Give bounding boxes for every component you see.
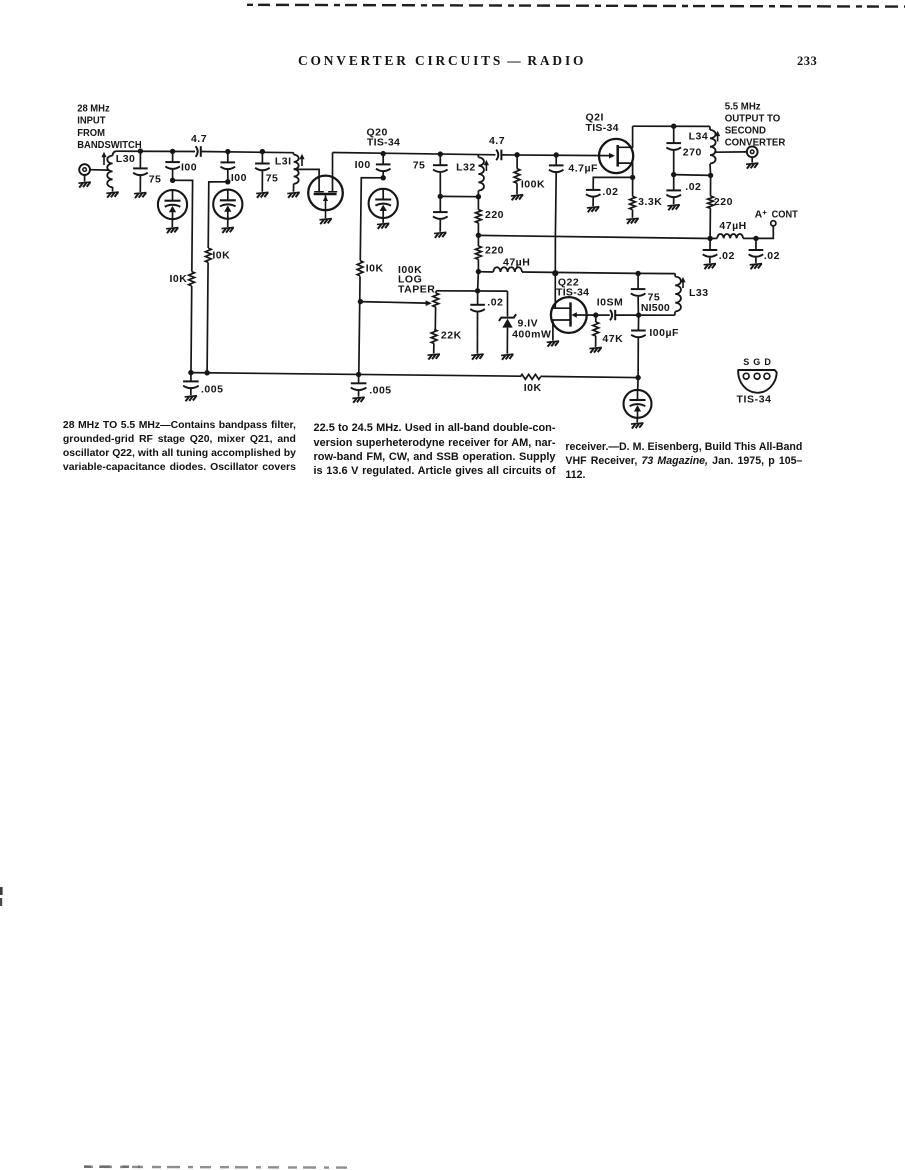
node L32 bottom xyxy=(476,194,481,199)
inductor L32 xyxy=(477,155,479,158)
svg-text:OUTPUT TO: OUTPUT TO xyxy=(725,113,781,124)
transistor Q21 TIS-34 (mixer) xyxy=(599,139,633,173)
wire 270 node to L34 bottom xyxy=(674,174,711,177)
node at 270 cap xyxy=(671,124,676,129)
capacitor 75 N1500 xyxy=(637,274,639,290)
ground below zener xyxy=(501,354,513,360)
node at 47uH junction xyxy=(476,269,481,274)
varactor diode D1 xyxy=(158,190,187,219)
ground below unlabeled cap xyxy=(434,232,446,238)
ground below 100K xyxy=(511,195,523,201)
svg-text:.005: .005 xyxy=(369,385,391,397)
svg-text:CONT: CONT xyxy=(772,209,798,221)
node at 100K resistor xyxy=(514,152,519,157)
svg-text:I0K: I0K xyxy=(366,262,384,274)
node below 270 cap xyxy=(671,172,676,177)
wire oscillator tank top xyxy=(437,290,508,292)
svg-text:.02: .02 xyxy=(719,250,735,262)
svg-text:I00: I00 xyxy=(355,159,371,171)
tuning arrow at L33 xyxy=(682,280,684,288)
wire from node to 10K bias line 2 xyxy=(207,182,228,373)
capacitor .02 (Q21 source bypass) xyxy=(586,189,601,191)
capacitor 75 (input filter) xyxy=(139,151,141,168)
node at 100 cap third (x383) xyxy=(381,151,386,156)
output connector J2 xyxy=(747,146,758,157)
inductor L31 xyxy=(292,153,295,155)
svg-text:.005: .005 xyxy=(201,383,223,395)
wire mixer feed (long horizontal) xyxy=(478,235,710,238)
A+ CONT terminal xyxy=(771,221,776,226)
inductor 47uH (second) xyxy=(717,234,743,238)
node at L33 bottom junction xyxy=(636,312,641,317)
capacitor 4.7uF xyxy=(555,155,557,165)
wire from node to oscillator bias line xyxy=(359,178,383,375)
capacitor 270 xyxy=(673,126,675,143)
ground below .005 left xyxy=(185,396,197,402)
capacitor .02 (below 270) xyxy=(666,189,681,191)
resistor 3.3K (R7) xyxy=(630,196,636,209)
wire to potentiometer wiper xyxy=(360,302,426,304)
ground below 22K xyxy=(428,354,440,360)
ground below input connector xyxy=(78,182,90,188)
node at 100pF cap (x172) xyxy=(170,149,175,154)
bottom ground bus xyxy=(191,373,520,377)
svg-text:TIS-34: TIS-34 xyxy=(367,136,400,148)
svg-text:TIS-34: TIS-34 xyxy=(556,286,589,298)
node at 75 cap second (x262) xyxy=(260,149,265,154)
wire top bus second segment xyxy=(201,152,293,153)
capacitor 75 (third) xyxy=(439,154,441,165)
node at 75 cap third (x440) xyxy=(438,151,443,156)
ground below .02 (270) xyxy=(667,205,679,211)
capacitor .02 (oscillator) xyxy=(477,291,479,305)
capacitor .02 (supply bypass 1) xyxy=(709,239,711,251)
node L34 bottom xyxy=(708,173,713,178)
inductor L33 xyxy=(674,274,677,277)
capacitor .02 (supply bypass 2) xyxy=(755,238,757,250)
node at 47uH-2 left xyxy=(707,236,712,241)
resistor 10K (R11) in bottom bus xyxy=(520,374,540,379)
wire top bus fourth segment (to Q21 gate) xyxy=(502,154,610,157)
wire Q21 source to .02 cap xyxy=(593,177,632,190)
svg-text:TIS-34: TIS-34 xyxy=(586,122,619,134)
ground below Q22 source xyxy=(547,341,559,347)
input connector J1 xyxy=(79,164,90,175)
inductor L34 xyxy=(708,126,711,129)
tuning arrow at L32 xyxy=(485,163,487,171)
ground below Q21 source bypass xyxy=(587,207,599,213)
transistor Q20 TIS-34 (grounded-gate RF stage) xyxy=(308,176,343,211)
svg-text:22K: 22K xyxy=(441,330,462,342)
varactor diode D2 xyxy=(213,190,242,219)
svg-text:TAPER: TAPER xyxy=(398,283,435,295)
page bottom cut-off text dashes xyxy=(84,1166,352,1169)
svg-text:L32: L32 xyxy=(456,161,476,173)
svg-text:I00: I00 xyxy=(231,172,247,184)
tuning arrow at L30 xyxy=(103,155,105,165)
svg-text:4.7µF: 4.7µF xyxy=(568,163,598,175)
svg-text:220: 220 xyxy=(485,244,504,256)
node at second 100 cap (x228) xyxy=(225,149,230,154)
ground below 75 cap xyxy=(134,193,146,199)
ground below L31 xyxy=(287,192,299,198)
node on bias line to pot wiper xyxy=(358,299,363,304)
series capacitor 4.7 (second) xyxy=(496,150,498,161)
svg-text:.02: .02 xyxy=(764,250,780,262)
ground below output connector xyxy=(746,163,758,169)
node at 4.7uF cap xyxy=(554,152,559,157)
svg-text:47K: 47K xyxy=(602,333,623,345)
svg-text:270: 270 xyxy=(683,147,702,159)
ground below 3.3K xyxy=(626,218,638,224)
wire 4.7uF down to oscillator (crosses mixer feed) xyxy=(554,173,557,273)
svg-text:+: + xyxy=(762,208,767,217)
svg-text:.02: .02 xyxy=(487,297,503,309)
svg-text:.02: .02 xyxy=(602,186,618,198)
node below third 100 cap xyxy=(381,175,386,180)
ground below varactor D2 xyxy=(222,227,234,233)
resistor 22K (R9) xyxy=(431,330,437,344)
ground below varactor D3 xyxy=(377,223,389,229)
node at 75 N1500 cap xyxy=(635,271,640,276)
ground below Q20 gate xyxy=(319,219,331,225)
svg-text:47µH: 47µH xyxy=(503,257,530,269)
resistor 10K (R2) on bias line 2 xyxy=(205,248,211,263)
node bottom bus (bias line 2) xyxy=(204,370,209,375)
capacitor .005 (left) xyxy=(190,373,192,382)
wire down to oscillator tank xyxy=(477,272,480,291)
svg-text:4.7: 4.7 xyxy=(489,135,505,147)
capacitor 75 (second) xyxy=(261,152,263,164)
svg-text:TIS-34: TIS-34 xyxy=(737,393,772,405)
svg-text:I0K: I0K xyxy=(169,273,187,285)
series capacitor 10SM xyxy=(610,310,612,320)
svg-text:9.IV: 9.IV xyxy=(518,317,539,329)
node Q21 source xyxy=(630,175,635,180)
svg-text:I00K: I00K xyxy=(521,179,545,191)
svg-text:75: 75 xyxy=(266,172,279,184)
svg-text:75: 75 xyxy=(413,160,426,172)
varactor diode D4 (oscillator) xyxy=(624,390,652,418)
zener diode 9.1V 400mW xyxy=(507,291,509,316)
wire top bus left segment xyxy=(117,150,195,152)
ground below .005 second xyxy=(352,397,364,403)
capacitor 100uF xyxy=(637,315,639,330)
capacitor 100 (third, at Q20 drain) xyxy=(382,154,384,165)
svg-text:L3I: L3I xyxy=(275,155,292,167)
series capacitor 4.7 (C bandpass) xyxy=(196,146,198,157)
svg-text:47µH: 47µH xyxy=(719,220,746,232)
resistor 220 (R4) xyxy=(476,210,482,223)
svg-text:L30: L30 xyxy=(116,153,136,165)
inductor 47uH (L osc feed) xyxy=(493,267,522,272)
capacitor (unlabeled) below 75 third xyxy=(439,196,441,212)
capacitor 100 (second varactor coupling) xyxy=(227,152,229,163)
varactor diode D3 xyxy=(369,189,398,218)
resistor 220 (R5) xyxy=(476,246,482,259)
svg-text:.02: .02 xyxy=(685,181,701,193)
ground below 47K xyxy=(589,347,601,353)
ground below .02 oscillator xyxy=(471,354,483,360)
left page edge marks xyxy=(0,887,3,895)
node below third 75 cap xyxy=(438,194,443,199)
resistor 10K (R3) on oscillator bias line xyxy=(357,260,364,276)
inductor L30 xyxy=(113,151,117,155)
ground below bypass 2 xyxy=(750,264,762,270)
ground below varactor D1 xyxy=(166,228,178,234)
capacitor 100 (first varactor coupling) xyxy=(172,151,174,162)
resistor 47K (R10) xyxy=(593,322,599,336)
wire top bus third segment (Q20 drain to 4.7 cap) xyxy=(333,153,496,155)
node at .02 osc cap xyxy=(475,288,480,293)
node bottom bus left (.005) xyxy=(188,370,193,375)
wire node to L32 bottom xyxy=(440,195,478,197)
svg-text:4.7: 4.7 xyxy=(191,133,207,145)
node at 75pF cap (x140) xyxy=(138,148,143,153)
node bottom bus right (100uF) xyxy=(635,375,640,380)
svg-text:FROM: FROM xyxy=(77,127,105,139)
wire L31 tap to Q20 source xyxy=(297,169,319,192)
svg-text:BANDSWITCH: BANDSWITCH xyxy=(77,140,141,152)
node bottom bus (osc bias line) xyxy=(356,372,361,377)
svg-text:NI500: NI500 xyxy=(641,302,670,314)
svg-text:SECOND: SECOND xyxy=(725,125,766,136)
svg-text:L34: L34 xyxy=(689,130,709,142)
wire Q21 drain bus xyxy=(633,125,710,127)
wire to L33 bottom xyxy=(639,314,675,316)
wire from node to 10K bias line xyxy=(173,180,193,372)
tuning arrow at L31 xyxy=(301,157,303,166)
ground below bypass 1 xyxy=(704,264,716,270)
top page edge dashed line xyxy=(247,5,905,7)
svg-text:I0K: I0K xyxy=(212,249,230,261)
ground below second 75 cap xyxy=(256,192,268,198)
transistor Q22 TIS-34 (oscillator) xyxy=(551,297,587,333)
wire to A+ CONT terminal xyxy=(756,226,773,239)
capacitor .005 (second) xyxy=(358,375,360,384)
svg-text:28 MHz: 28 MHz xyxy=(77,103,110,115)
node at A+ branch xyxy=(753,236,758,241)
tuning arrow at L34 xyxy=(717,134,719,142)
svg-text:75: 75 xyxy=(149,174,162,186)
resistor 100K (R6) xyxy=(514,169,520,184)
svg-text:I00µF: I00µF xyxy=(649,327,679,339)
svg-text:400mW: 400mW xyxy=(512,329,551,341)
svg-text:5.5 MHz: 5.5 MHz xyxy=(725,101,761,112)
svg-text:CONVERTER: CONVERTER xyxy=(725,137,786,148)
svg-text:L33: L33 xyxy=(689,287,709,299)
svg-text:INPUT: INPUT xyxy=(77,115,105,127)
svg-text:3.3K: 3.3K xyxy=(638,196,662,208)
node between 220 resistors xyxy=(476,233,481,238)
resistor 10K (R1) on bias line xyxy=(188,271,194,286)
resistor 220 (R8) xyxy=(708,196,714,208)
svg-text:220: 220 xyxy=(714,196,733,208)
node at 47K xyxy=(593,312,598,317)
svg-text:S G D: S G D xyxy=(743,357,772,367)
node below second 100 cap xyxy=(225,179,230,184)
svg-text:220: 220 xyxy=(485,209,504,221)
potentiometer 100K LOG TAPER xyxy=(436,291,437,293)
node below 100 cap xyxy=(170,178,175,183)
svg-text:I00: I00 xyxy=(181,161,197,173)
ground below L30 xyxy=(106,192,118,198)
node at oscillator supply junction xyxy=(552,270,558,276)
wire L34 tap to output connector xyxy=(714,151,747,153)
ground below varactor D4 xyxy=(631,423,643,429)
svg-text:I0SM: I0SM xyxy=(597,296,624,308)
svg-text:I0K: I0K xyxy=(524,382,542,394)
